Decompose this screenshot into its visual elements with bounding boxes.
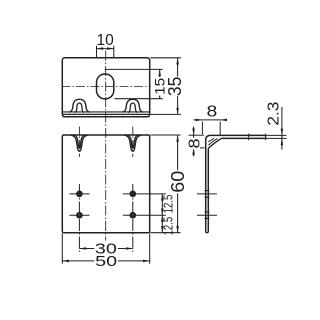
top view outline [62, 58, 149, 117]
notch center line left [78, 127, 80, 158]
slot edge tick on leg [248, 134, 250, 141]
rib notch right outer [124, 135, 142, 151]
vertical leg right face [207, 148, 209, 231]
side hole edge ticks lower [205, 211, 210, 213]
side hole edge ticks upper [205, 190, 210, 192]
text 30 [94, 243, 118, 255]
hole center lines horizontal right (extend as 12.5 ext) [123, 193, 166, 195]
svg-text:8: 8 [186, 138, 203, 148]
rib bump left (outer) [69, 99, 90, 112]
rib notch left outer [71, 135, 89, 151]
front view outline [62, 135, 149, 233]
slot horizontal center line [62, 86, 151, 88]
dim 10: dimension line [97, 48, 114, 50]
dim 15: extension lines [105, 68, 163, 70]
rib notch right inner [127, 135, 139, 148]
dim 30: dimension line [79, 248, 132, 250]
hole top-left [77, 192, 81, 196]
hole center lines horizontal left [69, 193, 89, 195]
dim 8 gusset width: ext lines [201, 122, 203, 135]
text 35 [168, 77, 182, 97]
rib notch left inner [73, 135, 85, 148]
bend tangent line [63, 111, 150, 113]
text 60 [170, 170, 185, 193]
plate bottom double line [63, 113, 150, 115]
gusset hypotenuse [208, 138, 221, 148]
dim 60: extension lines [150, 134, 180, 136]
rib bump left (inner) [75, 103, 84, 113]
dim 35: extension lines [150, 57, 181, 59]
svg-text:50: 50 [95, 253, 117, 270]
slot 10x15 [97, 74, 114, 99]
leg tip tick [265, 134, 267, 141]
dim 8 gusset height: ext lines [189, 134, 205, 136]
text 50 [94, 255, 118, 267]
hole center lines vertical (also 30-dim ext) [78, 184, 80, 252]
dim 2.3: dimension line with outside arrows [281, 107, 283, 150]
svg-text:35: 35 [165, 77, 185, 97]
dim 15: dimension line [159, 69, 161, 98]
dim 8 gusset width: dimension line with outside arrows [193, 119, 227, 121]
side hole center line upper [197, 193, 217, 195]
text 15 [154, 77, 165, 95]
dim 50: dimension line [62, 260, 149, 262]
svg-text:2.3: 2.3 [266, 101, 283, 125]
hole bottom-right [131, 213, 135, 217]
vertical leg bottom cap [206, 231, 209, 232]
vertical leg left face + corner arc + horizontal leg top face [206, 135, 266, 231]
rib bump right (outer) [122, 99, 143, 112]
horizontal leg bottom face [221, 137, 265, 139]
dim 60: dimension line [177, 135, 179, 233]
notch center line right [132, 127, 134, 158]
hole bottom-left [77, 213, 81, 217]
dim 10: extension lines [96, 46, 98, 58]
svg-text:12.5: 12.5 [161, 195, 175, 214]
text 8 (gusset height, left, rotated) [187, 138, 200, 150]
side hole center line lower [197, 214, 217, 216]
gusset hatch [208, 138, 217, 145]
dim 8 gusset height: dimension line with outside arrows [193, 127, 195, 157]
svg-text:60: 60 [168, 171, 188, 193]
dim 35: dimension line [177, 58, 179, 115]
dim 50: extension lines [61, 233, 63, 263]
svg-text:12.5: 12.5 [161, 217, 175, 236]
svg-text:8: 8 [207, 103, 218, 120]
main vertical center line [105, 51, 107, 241]
horizontal leg tip cap [265, 135, 267, 138]
svg-text:10: 10 [96, 32, 113, 49]
dim 12.5x2: dimension line [161, 194, 163, 233]
leg face extension lines to 2.3 dim [266, 134, 287, 136]
hole top-right [131, 192, 135, 196]
rib bump right (inner) [128, 103, 137, 113]
